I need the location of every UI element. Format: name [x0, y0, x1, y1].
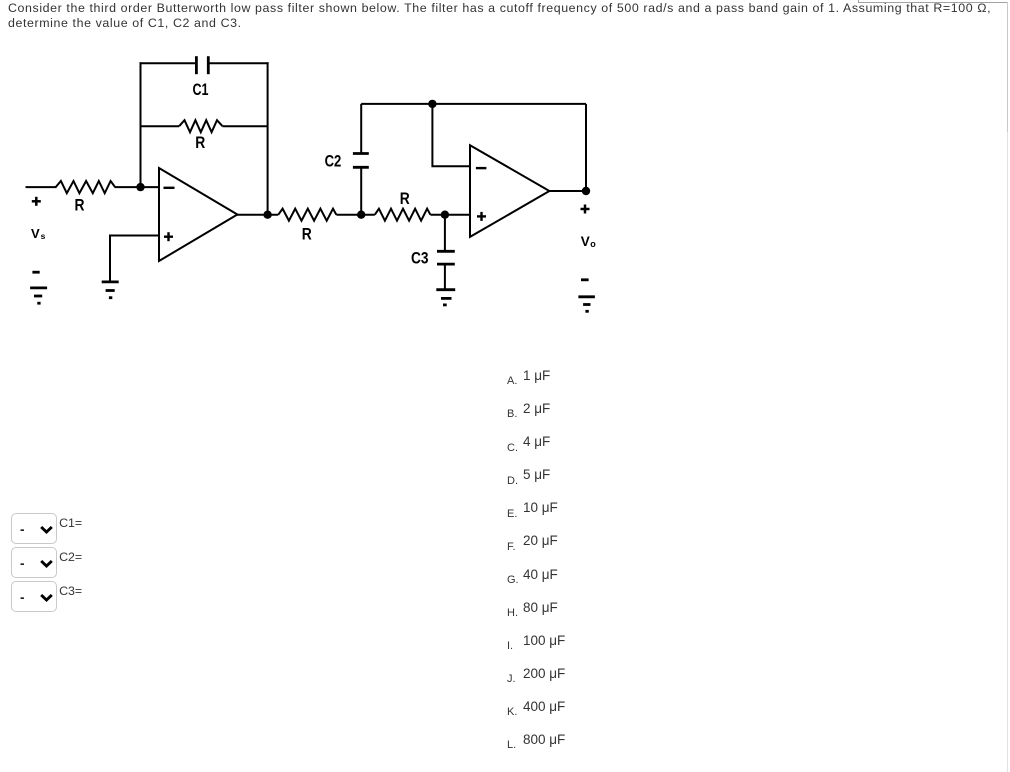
- resistor R (input): [56, 181, 115, 193]
- svg-text:C1: C1: [193, 80, 209, 99]
- wire: C2 lower lead: [360, 167, 362, 214]
- node: U2 inverting junction: [428, 100, 436, 108]
- ground (C3): [436, 290, 455, 305]
- node: U1 inverting input junction: [136, 183, 144, 191]
- wire: feedback left vertical: [140, 62, 142, 187]
- label - (Vs polarity): [32, 271, 39, 274]
- wire: R branch left segment: [141, 125, 180, 127]
- node: C2 tap: [357, 211, 365, 219]
- resistor R2: [278, 209, 336, 221]
- svg-text:R: R: [400, 189, 410, 208]
- op-amp U1: [159, 168, 237, 261]
- ground (Vs): [30, 288, 47, 303]
- wire: R to U1 inverting input: [115, 186, 160, 188]
- dropdown selects: [11, 513, 57, 544]
- op-amp U2: [470, 145, 549, 237]
- label - (Vo polarity): [581, 278, 589, 281]
- svg-text:V: V: [31, 226, 40, 241]
- svg-text:o: o: [590, 239, 596, 249]
- answer options: [507, 375, 517, 387]
- wire: C2 upper lead: [360, 104, 362, 154]
- label + (Vo polarity): [581, 205, 590, 214]
- wire: feedback right vertical: [267, 62, 269, 214]
- wire: R3 to U2 non-inverting input: [430, 214, 470, 216]
- U2 non-inverting pin mark +: [477, 212, 486, 221]
- label + (Vs polarity): [32, 197, 41, 206]
- svg-text:R: R: [195, 133, 205, 152]
- U1 non-inverting pin mark +: [164, 232, 173, 241]
- svg-text:C3: C3: [411, 249, 429, 268]
- wire: U2 feedback right vertical: [585, 104, 587, 191]
- wire: U2 inverting input drop: [432, 104, 470, 166]
- node: C3 tap: [441, 211, 449, 219]
- wire: U2 feedback top: [361, 103, 586, 105]
- capacitor C3: [437, 251, 455, 264]
- U2 inverting pin mark -: [476, 167, 487, 169]
- separator line top right: [858, 2, 1008, 3]
- U1 inverting pin mark -: [164, 187, 175, 189]
- ground (U1 non-inverting input): [102, 282, 119, 298]
- wire: U1 non-inverting input to ground: [110, 236, 160, 281]
- question text: [8, 1, 991, 30]
- right edge rule: [1007, 2, 1008, 132]
- node: U2 output Vo: [582, 187, 590, 195]
- resistor R (feedback): [179, 120, 222, 132]
- svg-text:R: R: [302, 224, 312, 243]
- svg-text:R: R: [75, 196, 85, 215]
- capacitor C1: [196, 56, 208, 74]
- node: U1 output: [263, 211, 271, 219]
- wire: input from Vs: [26, 186, 57, 188]
- wire: R2 to R3: [336, 214, 374, 216]
- capacitor C2: [353, 154, 369, 168]
- wire: R branch right segment: [223, 125, 268, 127]
- wire: U2 output: [548, 190, 588, 192]
- svg-text:C2: C2: [325, 151, 342, 170]
- resistor R3: [375, 209, 431, 221]
- wire: feedback top, right of C1: [208, 62, 268, 64]
- svg-text:s: s: [41, 231, 46, 241]
- wire: C3 upper lead: [444, 215, 446, 252]
- wire: feedback top, left of C1: [140, 62, 197, 64]
- svg-text:V: V: [581, 234, 590, 249]
- wire: C3 lower lead: [444, 264, 446, 290]
- ground (Vo): [578, 297, 595, 312]
- wire: U1 output: [236, 214, 278, 216]
